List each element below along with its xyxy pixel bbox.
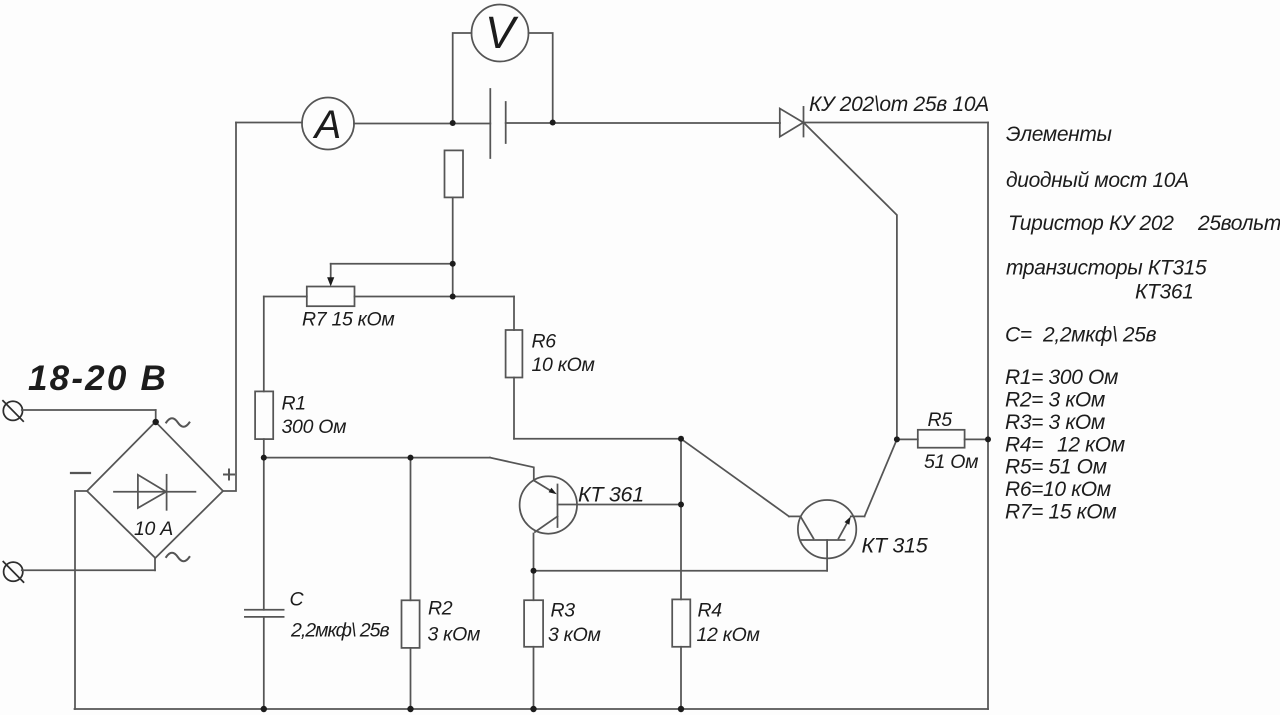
svg-text:R7= 15 кОм: R7= 15 кОм — [1005, 501, 1116, 524]
svg-text:R2= 3 кОм: R2= 3 кОм — [1005, 389, 1105, 412]
svg-text:Тиристор КУ 202: Тиристор КУ 202 — [1008, 212, 1174, 235]
svg-text:КУ 202\от 25в 10А: КУ 202\от 25в 10А — [809, 93, 989, 116]
svg-text:A: A — [313, 103, 342, 147]
svg-text:18-20 В: 18-20 В — [28, 359, 168, 398]
svg-text:транзисторы КТ315: транзисторы КТ315 — [1006, 257, 1207, 280]
svg-text:10 А: 10 А — [134, 518, 173, 540]
svg-text:R1: R1 — [282, 393, 306, 415]
svg-text:R6: R6 — [532, 331, 557, 353]
svg-text:R7 15 кОм: R7 15 кОм — [302, 309, 395, 331]
svg-text:С=2,2мкф\ 25в: С=2,2мкф\ 25в — [1005, 324, 1157, 347]
svg-text:R4=12 кОм: R4=12 кОм — [1005, 434, 1125, 457]
svg-text:R2: R2 — [428, 598, 453, 620]
svg-text:300 Ом: 300 Ом — [282, 416, 347, 438]
svg-text:12 кОм: 12 кОм — [697, 624, 760, 646]
svg-text:2,2мкф\ 25в: 2,2мкф\ 25в — [290, 620, 389, 642]
svg-text:3 кОм: 3 кОм — [428, 624, 481, 646]
svg-text:R6=10 кОм: R6=10 кОм — [1005, 478, 1111, 501]
svg-text:R3= 3 кОм: R3= 3 кОм — [1005, 411, 1105, 434]
svg-text:V: V — [485, 7, 519, 58]
svg-text:3 кОм: 3 кОм — [548, 624, 601, 646]
svg-text:КТ361: КТ361 — [1135, 281, 1194, 304]
svg-text:R1= 300 Ом: R1= 300 Ом — [1005, 366, 1118, 389]
svg-text:R3: R3 — [551, 600, 576, 622]
svg-text:КТ 361: КТ 361 — [578, 483, 644, 507]
svg-text:С: С — [290, 589, 305, 611]
svg-text:R5= 51 Ом: R5= 51 Ом — [1005, 456, 1107, 479]
svg-text:25вольт: 25вольт — [1197, 212, 1280, 235]
svg-text:диодный мост 10А: диодный мост 10А — [1006, 169, 1189, 192]
svg-text:КТ 315: КТ 315 — [862, 534, 929, 558]
svg-text:Элементы: Элементы — [1006, 123, 1113, 146]
svg-text:R5: R5 — [928, 409, 953, 431]
svg-text:R4: R4 — [698, 600, 723, 622]
svg-text:51 Ом: 51 Ом — [924, 451, 978, 473]
svg-text:10 кОм: 10 кОм — [532, 354, 595, 376]
